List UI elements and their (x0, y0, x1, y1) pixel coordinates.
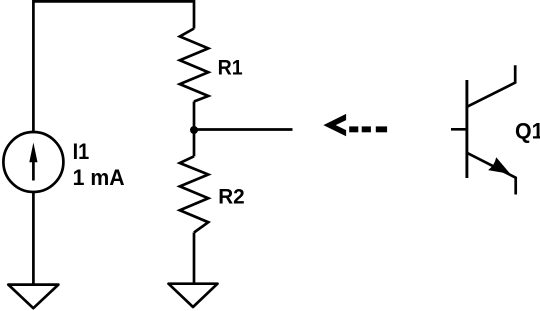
svg-text:R1: R1 (218, 56, 243, 80)
ground below I1 (8, 285, 58, 309)
transistor Q1 emitter arrow head (488, 157, 510, 174)
current source I1 arrow head (29, 143, 37, 163)
dashed arrow chevron pointing left (323, 114, 346, 136)
transistor Q1 emitter lead (467, 153, 516, 195)
resistor R1 zigzag (180, 29, 209, 102)
wire top loop from I1 to R1 (33, 1, 194, 131)
current source I1 arrow shaft (32, 157, 35, 181)
wire below I1 (32, 192, 35, 284)
svg-text:R2: R2 (218, 184, 245, 208)
resistor R2 zigzag (180, 156, 209, 232)
svg-text:I1: I1 (73, 139, 90, 164)
wire below R2 (193, 233, 196, 284)
wire R1 to R2 through node (193, 102, 196, 157)
svg-text:Q1: Q1 (515, 119, 540, 144)
wire node to right (194, 128, 293, 131)
ground below R2 (169, 284, 218, 307)
transistor Q1 base bar (465, 80, 468, 178)
svg-text:1 mA: 1 mA (73, 165, 125, 190)
transistor Q1 base lead (451, 128, 468, 131)
dash 2 of arrow (362, 126, 371, 132)
transistor Q1 collector lead (467, 65, 515, 107)
dash 3 of arrow (376, 126, 387, 132)
dash 1 of arrow (349, 126, 358, 132)
node junction dot (190, 126, 198, 134)
current source I1 circle (3, 132, 63, 192)
